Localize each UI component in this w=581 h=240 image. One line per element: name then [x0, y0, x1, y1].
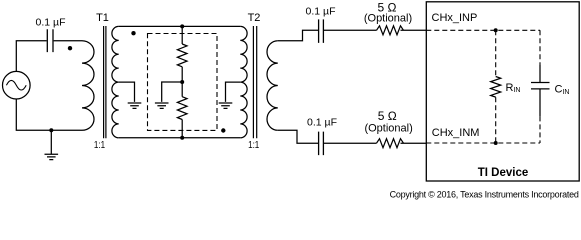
svg-text:TI Device: TI Device	[478, 167, 529, 179]
node junction dot top rail	[180, 24, 184, 28]
resistor RIN	[491, 77, 501, 98]
wire source top to capacitor	[16, 41, 46, 72]
transformer T1 secondary winding	[112, 26, 119, 137]
capacitor 0.1uF (bottom output)	[319, 132, 324, 156]
dashed lead to CIN	[539, 30, 541, 65]
sine symbol inside source	[6, 80, 26, 90]
phase dot T1 secondary	[131, 31, 135, 35]
transformer T2 secondary winding	[267, 41, 278, 131]
phase dot T1 primary	[68, 46, 72, 50]
svg-text:0.1 µF: 0.1 µF	[36, 16, 66, 28]
ground (termination mid)	[155, 103, 169, 108]
dashed lead to RIN	[495, 30, 497, 76]
phase dot T2 primary	[221, 128, 225, 132]
capacitor 0.1uF (top output)	[319, 19, 324, 43]
svg-text:Copyright © 2016, Texas Instru: Copyright © 2016, Texas Instruments Inco…	[390, 190, 579, 200]
svg-text:CHx_INM: CHx_INM	[432, 127, 480, 139]
node junction dot INP	[494, 28, 498, 32]
AC source V1	[2, 71, 30, 99]
wire resistor to TI box (bottom)	[401, 142, 427, 144]
wire T2 secondary top to cap	[278, 30, 318, 40]
resistor 5 ohm (top)	[377, 26, 404, 35]
ground (T2 center tap)	[219, 103, 233, 108]
resistor 5 ohm (bottom)	[377, 139, 404, 148]
ground (T1 center tap)	[128, 103, 142, 108]
svg-text:1:1: 1:1	[248, 140, 259, 151]
svg-text:T1: T1	[96, 12, 109, 24]
node junction dot bottom rail	[180, 136, 184, 140]
node junction dot INM	[494, 141, 498, 145]
ground (source)	[45, 130, 59, 159]
svg-text:0.1 µF: 0.1 µF	[306, 5, 336, 17]
svg-text:T2: T2	[248, 12, 261, 24]
svg-text:(Optional): (Optional)	[364, 122, 412, 134]
svg-text:CIN: CIN	[555, 84, 570, 96]
node junction dot mid	[180, 80, 184, 84]
T1 core	[104, 26, 106, 138]
wire cap to 5 ohm resistor (bottom)	[324, 142, 377, 144]
wire T2 secondary bottom to cap	[278, 130, 318, 143]
wire mid node to ground	[162, 82, 183, 102]
wire resistor to bottom rail	[181, 120, 183, 138]
dashed lead from RIN	[495, 97, 497, 143]
wire T2 primary center tap	[226, 82, 241, 102]
svg-text:0.1 µF: 0.1 µF	[307, 116, 337, 128]
wire source bottom rail	[16, 99, 82, 130]
dashed internal wire CHx_INM to node	[426, 142, 540, 144]
svg-text:5 Ω: 5 Ω	[378, 109, 397, 123]
wire T1 secondary center tap	[119, 82, 135, 102]
svg-text:RIN: RIN	[506, 82, 521, 94]
svg-text:CHx_INP: CHx_INP	[432, 12, 478, 24]
capacitor C1 0.1uF (left plates)	[47, 29, 53, 52]
wire cap to 5 ohm resistor (top)	[324, 29, 377, 31]
capacitor CIN	[531, 65, 550, 116]
resistor (lower termination)	[177, 97, 187, 120]
wire capacitor to T1 primary	[54, 40, 82, 42]
node junction dot at source ground	[49, 128, 53, 132]
wire resistor to TI box (top)	[401, 29, 427, 31]
wire top inner rail T1 secondary to T2 primary	[119, 25, 241, 27]
dashed termination box	[148, 34, 218, 131]
svg-text:(Optional): (Optional)	[364, 13, 412, 25]
wire top rail to resistor	[181, 26, 183, 44]
resistor (upper termination)	[177, 44, 187, 67]
transformer T1 primary winding	[82, 41, 94, 131]
wire bottom inner rail	[119, 137, 241, 139]
TI Device box	[426, 2, 579, 181]
wire resistor to mid node	[181, 67, 183, 97]
T2 core	[253, 26, 256, 138]
transformer T2 primary winding	[240, 26, 247, 137]
svg-text:1:1: 1:1	[94, 140, 105, 151]
dashed internal wire CHx_INP to node	[426, 29, 540, 31]
dashed lead from CIN	[539, 116, 541, 143]
